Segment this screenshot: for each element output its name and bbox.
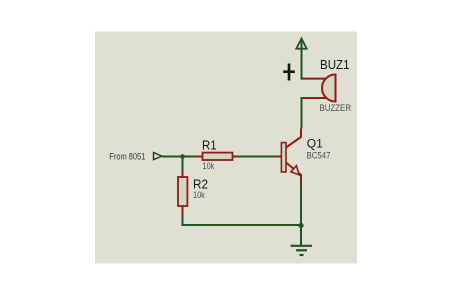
svg-text:BUZZER: BUZZER bbox=[320, 102, 352, 113]
svg-text:10k: 10k bbox=[203, 161, 215, 172]
svg-text:R1: R1 bbox=[202, 139, 217, 153]
svg-text:Q1: Q1 bbox=[307, 137, 323, 151]
svg-text:10k: 10k bbox=[193, 190, 205, 201]
svg-text:BUZ1: BUZ1 bbox=[320, 58, 350, 72]
svg-text:From 8051: From 8051 bbox=[109, 151, 145, 162]
svg-text:BC547: BC547 bbox=[307, 151, 331, 161]
